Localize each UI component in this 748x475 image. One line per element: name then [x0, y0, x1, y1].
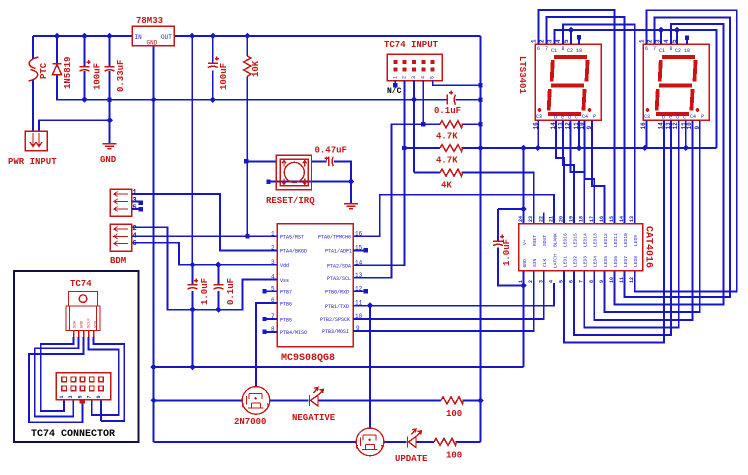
svg-text:LED15: LED15: [573, 233, 579, 247]
wire 4.7K#1 line SCL to MCU pin13: [353, 124, 480, 278]
capacitor 100uF C1: [80, 60, 91, 71]
svg-text:4: 4: [663, 39, 670, 43]
junction C3 top on 3.3V rail: [210, 33, 216, 39]
svg-text:1: 1: [59, 395, 65, 398]
svg-text:PTB4/MISO: PTB4/MISO: [280, 330, 307, 336]
svg-text:SCLK: SCLK: [88, 318, 92, 328]
svg-text:18: 18: [579, 216, 585, 222]
svg-text:PWR INPUT: PWR INPUT: [8, 157, 57, 167]
junction DS2 pin16 on anode net: [642, 145, 648, 151]
svg-text:LTS3401: LTS3401: [517, 56, 527, 94]
resistor 4K R4: [440, 169, 463, 176]
svg-text:GND: GND: [522, 259, 528, 268]
node TC74-input pin1 n/c: [393, 83, 397, 87]
svg-text:TC74: TC74: [70, 279, 92, 289]
node MCU pin15 n/c: [364, 248, 368, 252]
wire TC74 leg2 loop: [35, 337, 79, 417]
svg-text:LED7: LED7: [623, 256, 629, 267]
svg-text:10: 10: [609, 277, 615, 283]
transistor 2N7000 Q1: [242, 387, 270, 415]
svg-text:4K: 4K: [441, 181, 452, 191]
svg-text:7: 7: [653, 46, 656, 52]
wire MCU pin8 stub: [267, 331, 278, 333]
svg-text:3: 3: [538, 280, 544, 283]
svg-text:SDA: SDA: [74, 320, 78, 328]
wire MCU pin2 from BDM pin1: [132, 194, 278, 250]
svg-text:BDM: BDM: [110, 256, 126, 266]
svg-text:SIN: SIN: [532, 258, 538, 267]
junction 3.3V bus on row B: [477, 397, 483, 403]
svg-text:10K: 10K: [251, 60, 261, 77]
digit 8 right: [656, 57, 696, 114]
svg-text:P: P: [701, 114, 704, 120]
junction reset cap to GND: [348, 178, 354, 184]
wire BLANK line MCU pin16: [353, 195, 554, 237]
wire disp1 pin14 to CAT20: [556, 120, 564, 223]
junction DS2 pin3 on anode top run: [658, 27, 664, 33]
junction 10K top on 3.3V rail: [244, 33, 250, 39]
node BDM pin3 n/c: [139, 201, 143, 205]
svg-text:TC74 INPUT: TC74 INPUT: [384, 40, 439, 50]
svg-text:18: 18: [684, 48, 690, 54]
wire disp2 pin10 from CAT8: [594, 120, 692, 320]
wire 100uF2 column: [212, 36, 214, 100]
node R2 left tap on SCLK: [421, 122, 425, 126]
wire L3 disp1 pin4 to CAT pin13: [563, 24, 635, 224]
connector BDM J3: [110, 189, 139, 266]
wire GND rail: [57, 75, 481, 100]
wire row B negative LED: [154, 399, 481, 401]
node 3.3V tap TC74 supply: [478, 83, 482, 87]
resistor 100 R5: [441, 397, 464, 404]
connector PWR INPUT J1: [8, 131, 57, 167]
junction 3.3V riser on 3.3V rail: [189, 33, 195, 39]
node MCU pin5 n/c: [262, 289, 266, 293]
svg-text:CLK: CLK: [542, 258, 548, 267]
svg-text:LED4: LED4: [593, 256, 599, 267]
regulator 78M33 U2: [132, 16, 174, 47]
wire row A ground rail: [154, 366, 524, 368]
svg-text:PTA4/BKGD: PTA4/BKGD: [280, 249, 307, 255]
svg-text:7: 7: [545, 46, 548, 52]
wire R2 disp2 pin2 loop to CAT pin12b: [625, 17, 730, 297]
wire TC74 leg4 loop: [89, 337, 119, 415]
wire TC74 input pin2 SDA down to MCU pin14: [353, 81, 404, 266]
svg-text:12: 12: [629, 277, 635, 283]
wire BDM pin3 stub: [132, 201, 139, 203]
svg-text:2: 2: [402, 76, 408, 79]
wire disp1 pin12 to CAT18: [571, 120, 585, 223]
wire MCU pin15 stub: [353, 249, 363, 251]
svg-text:1: 1: [531, 39, 538, 43]
svg-text:3: 3: [411, 76, 417, 79]
svg-text:MC9S08QG8: MC9S08QG8: [281, 353, 335, 364]
svg-text:PTC: PTC: [39, 62, 49, 79]
svg-text:8: 8: [562, 46, 565, 52]
svg-text:PTB3/MOSI: PTB3/MOSI: [322, 329, 349, 335]
svg-text:0.33uF: 0.33uF: [116, 60, 126, 92]
wire MCU pin4 Vss rail from BDM pin2: [132, 227, 278, 309]
svg-text:GND: GND: [100, 155, 117, 165]
svg-text:e: e: [669, 115, 672, 121]
junction 3.3V bus on anode net: [477, 145, 483, 151]
svg-text:3: 3: [68, 395, 74, 398]
wire top 3.3V rail: [33, 35, 481, 37]
junction C6 gnd leg on row A: [189, 364, 195, 370]
svg-text:6: 6: [569, 280, 575, 283]
diode 1N5819 D1: [53, 64, 62, 75]
wire CAT pin24 V+ riser: [523, 148, 525, 224]
svg-text:b: b: [554, 115, 557, 121]
svg-text:d: d: [568, 115, 571, 121]
wire disp2 pin9 from CAT9: [604, 120, 699, 312]
junction C6 top on Vdd rail: [189, 262, 195, 268]
svg-text:2: 2: [647, 39, 654, 43]
display LTS3401 DS2 (right): [639, 39, 710, 130]
resistor 4.7K R2: [440, 121, 463, 128]
svg-text:4.7K: 4.7K: [436, 156, 458, 166]
svg-text:C2: C2: [567, 48, 573, 54]
wire MCU pin1 from BDM pin4: [132, 235, 278, 237]
wire TC74 input pin5 3.3V tap: [433, 81, 481, 86]
svg-text:PTB0/RXD: PTB0/RXD: [325, 290, 349, 296]
junction 78M33 GND pin on GND rail: [150, 97, 156, 103]
junction DS1 pin11 on anode net: [576, 145, 582, 151]
svg-text:c: c: [575, 115, 578, 121]
wire left vertical to PWR input: [32, 36, 34, 131]
svg-text:OUT: OUT: [161, 34, 172, 41]
svg-text:3: 3: [547, 39, 554, 43]
node 10K tap on RST line: [245, 234, 249, 238]
svg-text:9: 9: [599, 280, 605, 283]
svg-text:c: c: [683, 115, 686, 121]
wire L2 disp1 pin2 to CAT pin14: [547, 17, 625, 224]
svg-text:GND: GND: [147, 40, 158, 47]
svg-text:17: 17: [589, 216, 595, 222]
wire disp1 NC stub: [578, 38, 580, 44]
wire MCU pin12 stub: [353, 290, 363, 292]
svg-text:PTB2/SPSCK: PTB2/SPSCK: [320, 317, 350, 323]
svg-text:LED8: LED8: [633, 256, 639, 267]
junction C2 top on 3.3Vin rail: [106, 33, 112, 39]
junction PWR-input GND node: [106, 117, 112, 123]
svg-text:LED16: LED16: [562, 233, 568, 247]
junction C6 bottom on Vss rail: [189, 307, 195, 313]
capacitor 1.0uF C8: [493, 235, 504, 246]
connector TC74 CONNECTOR J4: [56, 373, 111, 404]
svg-text:PTA5/RST: PTA5/RST: [280, 235, 304, 241]
svg-text:4: 4: [555, 39, 562, 43]
svg-text:4.7K: 4.7K: [436, 132, 458, 142]
svg-text:15: 15: [609, 216, 615, 222]
svg-text:5: 5: [563, 39, 570, 43]
resistor 4.7K R3: [440, 145, 463, 152]
svg-text:b: b: [662, 115, 665, 121]
wire 4K RSET line: [414, 173, 534, 224]
wire 78M33 gnd pin and gnd bus: [153, 46, 155, 442]
capacitor 0.33uF C2: [105, 67, 115, 72]
junction DS1 pin16 on anode net: [535, 145, 541, 151]
svg-text:4: 4: [548, 280, 554, 283]
junction DS2 pin11 on anode net: [683, 145, 689, 151]
junction C1 bottom on GND rail: [81, 97, 87, 103]
junction 1N5819 top on 3.3Vin rail: [54, 33, 60, 39]
svg-text:PTA2/SDA: PTA2/SDA: [327, 264, 351, 270]
wire 3.3V riser to cap rail: [191, 36, 193, 265]
svg-text:1: 1: [518, 280, 524, 283]
svg-text:19: 19: [569, 216, 575, 222]
svg-text:C1: C1: [551, 48, 557, 54]
svg-text:CAT4016: CAT4016: [643, 226, 654, 268]
wire disp1 pin10 to CAT17: [585, 120, 595, 223]
svg-text:0.47uF: 0.47uF: [315, 146, 347, 156]
wire TC74 leg3 loop: [29, 337, 84, 422]
svg-text:UPDATE: UPDATE: [395, 454, 428, 464]
junction GND bus on row B: [150, 397, 156, 403]
node reset line tap: [244, 159, 248, 163]
svg-text:PTA1/ADP1: PTA1/ADP1: [325, 249, 352, 255]
svg-text:8: 8: [670, 46, 673, 52]
svg-text:78M33: 78M33: [136, 16, 163, 26]
junction C7 bottom on Vss rail: [215, 307, 221, 313]
frame TC74 section: [14, 271, 139, 442]
capacitor 100uF C3: [208, 57, 219, 68]
svg-text:2: 2: [539, 39, 546, 43]
svg-text:LED14: LED14: [583, 233, 589, 247]
svg-text:20: 20: [559, 216, 565, 222]
digit 8 left: [548, 57, 588, 114]
svg-text:11: 11: [619, 277, 625, 283]
svg-text:21: 21: [548, 216, 554, 222]
wire 0.1uF cap column: [217, 265, 219, 310]
wire MCU pin6 to 2N7000 gate: [256, 303, 277, 387]
wire R3 disp2 pin4 loop to CAT pin11: [615, 24, 724, 305]
PTC fuse F1: [29, 57, 39, 81]
svg-text:6: 6: [645, 46, 648, 52]
wire TC74 leg5 loop: [94, 337, 125, 421]
wire TC74 input pin3 gnd + 4K riser: [413, 81, 415, 173]
wire disp2 pin12 from CAT7: [584, 120, 679, 327]
svg-text:14: 14: [619, 216, 625, 222]
svg-text:5: 5: [430, 76, 436, 79]
svg-text:PTB6: PTB6: [280, 301, 292, 307]
svg-text:5: 5: [559, 280, 565, 283]
svg-text:100uF: 100uF: [219, 63, 229, 90]
sensor TC74 U1: [66, 292, 100, 337]
svg-text:Vdd: Vdd: [280, 263, 289, 269]
ground (reset): [344, 204, 358, 209]
wire disp2 pin13 from CAT6: [574, 120, 671, 335]
svg-text:1.0uF: 1.0uF: [502, 239, 512, 266]
node MCU pin12 n/c: [364, 289, 368, 293]
capacitor 0.1uF C4 (horizontal): [447, 91, 456, 105]
wire MCU pin5 stub: [267, 290, 278, 292]
wire anode net y148: [481, 147, 717, 149]
wire disp1 pin13 to CAT19: [563, 120, 574, 223]
node DS1 n/c pin: [577, 35, 581, 39]
wire MCU pin3 Vdd rail from BDM pin6: [132, 243, 278, 265]
junction C1 top on 3.3Vin rail: [81, 33, 87, 39]
junction GND bus on row A: [150, 364, 156, 370]
wire row C update LED: [154, 441, 481, 443]
svg-text:LED9: LED9: [633, 235, 639, 246]
svg-text:9: 9: [96, 395, 102, 398]
svg-text:C3: C3: [536, 114, 542, 120]
svg-text:7: 7: [579, 280, 585, 283]
node MCU pin8 n/c: [262, 330, 266, 334]
wire disp2 NC stub: [686, 39, 688, 45]
svg-text:100uF: 100uF: [93, 63, 103, 90]
svg-text:LED2: LED2: [573, 256, 579, 267]
wire diode and cap columns: [57, 36, 110, 100]
svg-text:0.1uF: 0.1uF: [226, 278, 236, 305]
svg-text:IN: IN: [135, 34, 143, 41]
svg-text:d: d: [676, 115, 679, 121]
node reset bottom terminal: [266, 179, 270, 183]
wire 3.3V bus right side down: [480, 36, 482, 442]
wire PWR input ground branch: [39, 100, 110, 143]
svg-text:C4: C4: [582, 114, 588, 120]
svg-text:LED10: LED10: [623, 233, 629, 247]
svg-text:P: P: [593, 114, 596, 120]
capacitor 0.47uF C5: [325, 156, 334, 166]
node 3.3V tap R2: [478, 122, 482, 126]
svg-text:100: 100: [446, 451, 462, 461]
junction C8 top to V+ riser: [520, 206, 526, 212]
svg-text:4: 4: [420, 76, 426, 79]
svg-text:5: 5: [77, 395, 83, 398]
node BDM pin5 n/c: [139, 207, 143, 211]
wire TC74 input pin1 NC stub: [394, 81, 396, 85]
svg-text:TC74 CONNECTOR: TC74 CONNECTOR: [31, 429, 115, 440]
connector TC74 INPUT J2: [384, 40, 442, 96]
svg-text:C2: C2: [675, 48, 681, 54]
svg-text:13: 13: [629, 216, 635, 222]
svg-text:PTB5: PTB5: [280, 317, 292, 323]
svg-text:23: 23: [528, 216, 534, 222]
svg-text:RSET: RSET: [532, 235, 538, 246]
wire TC74 leg1 loop: [41, 337, 74, 411]
svg-text:7: 7: [87, 395, 93, 398]
wire disp1 pin9 to CAT16: [592, 120, 604, 223]
wire 1.0uF bypass cap branches: [498, 209, 524, 286]
capacitor 0.1uF C7: [213, 285, 223, 290]
svg-text:RESET/IRQ: RESET/IRQ: [266, 196, 315, 206]
svg-text:22: 22: [538, 216, 544, 222]
transistor 2N7000 Q2: [356, 428, 384, 456]
wire reset cap to gnd: [269, 161, 352, 203]
svg-text:VDD: VDD: [95, 320, 99, 328]
resistor 10K R1: [244, 56, 251, 77]
resistor 100 R6: [434, 438, 457, 445]
svg-text:N/C: N/C: [387, 87, 402, 96]
svg-text:6: 6: [537, 46, 540, 52]
svg-text:V+: V+: [522, 239, 528, 245]
wire BDM pin5 stub: [132, 208, 139, 210]
svg-text:18: 18: [576, 48, 582, 54]
ground symbol GND (power): [103, 144, 117, 149]
wire disp2 anode pins down: [646, 120, 685, 148]
svg-text:C3: C3: [644, 114, 650, 120]
wire MCU pin9 to CAT sin: [353, 271, 534, 331]
svg-text:C1: C1: [659, 48, 665, 54]
driver CAT4016 U4: [518, 216, 653, 283]
wire disp1 anode pins down: [538, 120, 579, 148]
svg-text:2: 2: [528, 280, 534, 283]
svg-text:PTA3/SCL: PTA3/SCL: [327, 276, 351, 282]
switch RESET S1: [246, 146, 358, 209]
svg-text:LED12: LED12: [603, 233, 609, 247]
wire TC74 input pin4 SCLK to 4.7K: [422, 81, 424, 125]
svg-text:6: 6: [133, 240, 137, 248]
wire connector stubs: [64, 400, 101, 404]
svg-text:PTA0/TPMCH0: PTA0/TPMCH0: [318, 235, 351, 241]
svg-text:LED6: LED6: [613, 256, 619, 267]
svg-text:NEGATIVE: NEGATIVE: [292, 413, 336, 423]
svg-text:0.1uF: 0.1uF: [434, 106, 461, 116]
svg-text:LATCH: LATCH: [552, 254, 558, 268]
wire MCU pin11 TXD to CAT latch + update gate: [353, 283, 554, 428]
svg-text:16: 16: [355, 230, 363, 237]
node DS2 n/c pin: [685, 36, 689, 40]
wire SDA pullup line: [404, 147, 480, 149]
svg-text:24: 24: [518, 216, 524, 222]
junction DS2 pin5 on anode top run: [674, 27, 680, 33]
svg-text:SOUT: SOUT: [542, 235, 548, 246]
wire reset top: [246, 160, 326, 162]
wire L1 disp1 pin1 to CAT pin15: [539, 10, 615, 224]
svg-text:14: 14: [355, 259, 363, 266]
wire R1 disp2 pin1 loop to CAT pin12: [635, 10, 737, 291]
svg-text:LED11: LED11: [613, 233, 619, 247]
svg-text:1: 1: [639, 39, 646, 43]
wire anode top run y30: [555, 30, 717, 148]
svg-text:PTB1/TXD: PTB1/TXD: [325, 304, 349, 310]
wire 1.0uF cap column: [192, 265, 194, 367]
svg-text:GND: GND: [81, 320, 85, 328]
node MCU pin7 n/c: [262, 317, 266, 321]
junction CAT V+ riser on anode net: [520, 145, 526, 151]
capacitor 1.0uF C6: [188, 279, 199, 290]
LED NEGATIVE D2: [310, 388, 324, 407]
junction C8 bottom to CAT GND: [520, 282, 526, 288]
node R3 left tap on SDA: [402, 146, 406, 150]
wire disp2 pin14 from CAT5: [564, 120, 664, 342]
wire CAT pin22 stub: [543, 213, 545, 224]
junction TXD line to update gate: [367, 303, 373, 309]
LED UPDATE D3: [408, 429, 422, 448]
svg-text:8: 8: [589, 280, 595, 283]
wire 10K column down to reset and MCU pin1: [246, 36, 248, 236]
svg-text:LED13: LED13: [593, 233, 599, 247]
junction DS1 pin5 on anode top run: [568, 27, 574, 33]
svg-text:1: 1: [392, 76, 398, 79]
svg-text:1.0uF: 1.0uF: [200, 278, 210, 305]
svg-text:BLANK: BLANK: [552, 233, 558, 247]
svg-text:LED5: LED5: [603, 256, 609, 267]
microcontroller MC9S08QG8 U3: [271, 224, 363, 365]
junction TC74-input pin3 on GND rail: [411, 97, 417, 103]
svg-text:LED1: LED1: [562, 256, 568, 267]
wire MCU pin7 stub: [267, 318, 278, 320]
svg-text:1: 1: [133, 189, 137, 197]
svg-text:100: 100: [446, 409, 462, 419]
svg-text:LED3: LED3: [583, 256, 589, 267]
svg-text:13: 13: [355, 272, 363, 279]
wire MCU pin10 to CAT clk: [353, 271, 544, 319]
svg-text:2N7000: 2N7000: [234, 417, 266, 427]
svg-text:C4: C4: [690, 114, 696, 120]
